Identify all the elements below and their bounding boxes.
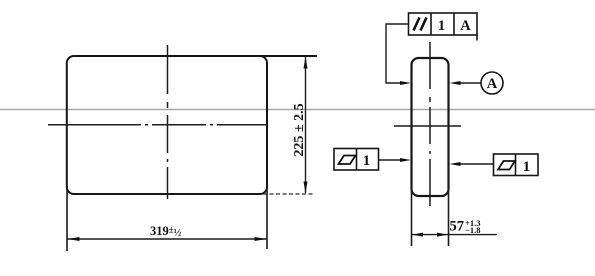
svg-text:57: 57 [450,219,465,235]
svg-text:1: 1 [523,159,531,175]
datum leader arrow to side view [457,82,481,84]
225 arrow down [304,182,308,194]
225 bottom extension line [263,193,313,195]
319 arrow left [68,237,80,241]
leader from parallelism frame to side view [386,24,409,83]
svg-text:1: 1 [363,153,371,169]
57 arrow left [412,233,423,237]
side view horizontal centerline [394,125,461,127]
svg-text:225 ± 2.5: 225 ± 2.5 [292,103,307,156]
side view outline [412,58,449,196]
left flatness feature control frame box [334,149,379,171]
57 left extension line [411,188,413,246]
datum circle A [481,72,503,94]
225 top extension line [256,55,317,57]
57 arrow right [437,233,448,237]
225 dimension line [305,57,307,193]
left flatness leader arrow [379,159,404,161]
319 left extension line [66,186,68,251]
319 dimension line [67,238,267,240]
svg-text:A: A [460,18,471,34]
svg-text:−1.8: −1.8 [465,225,480,235]
front view outline [67,56,267,194]
right flatness leader arrow [457,163,494,165]
319 arrow right [255,237,267,241]
57 right extension line [448,188,450,246]
right flatness feature control frame box [494,154,539,176]
parallelism symbol // [414,18,427,31]
leader arrowhead [400,81,411,85]
front view vertical centerline [167,45,169,199]
svg-text:1: 1 [438,18,445,34]
319 right extension line [266,186,268,249]
57 dimension line [412,234,498,236]
svg-text:A: A [487,76,498,92]
right flatness symbol [498,161,515,170]
front view horizontal centerline [48,124,267,126]
parallelism feature control frame box [409,13,478,41]
225 arrow up [304,57,308,69]
side view vertical centerline [429,42,431,211]
left flatness symbol [339,156,356,165]
faint horizontal rule across page [0,109,595,111]
